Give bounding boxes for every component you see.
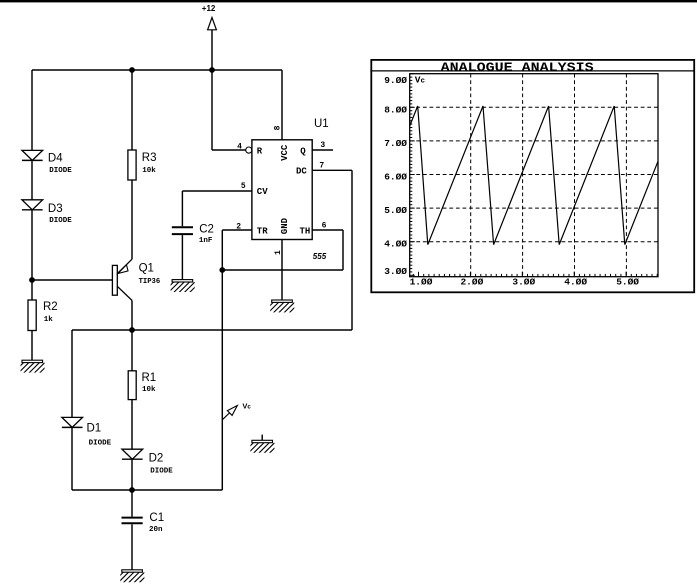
diode D2 [122, 449, 143, 459]
wire bottom rail y490 [72, 489, 222, 491]
wire base Q1 [32, 279, 112, 281]
waveform sawtooth trace Vc [410, 106, 658, 245]
svg-text:C1: C1 [149, 512, 164, 524]
wire pin Q stub [312, 149, 333, 151]
op-amp U1 555 body [252, 140, 312, 240]
svg-text:TIP36: TIP36 [139, 278, 161, 286]
svg-text:DC: DC [296, 167, 307, 177]
svg-text:2: 2 [236, 222, 241, 231]
svg-text:3.ØØ: 3.ØØ [384, 266, 407, 277]
resistor R1 [128, 371, 136, 400]
wire DC leg down [351, 170, 353, 330]
ground under R2 [13, 360, 50, 373]
svg-text:Q1: Q1 [139, 263, 154, 275]
pin 4 bubble on R [246, 147, 252, 153]
svg-text:R1: R1 [142, 372, 157, 384]
diode D3 [22, 200, 43, 210]
svg-text:20n: 20n [149, 526, 163, 534]
capacitor C2 [172, 227, 193, 234]
wire C2 bottom [181, 235, 183, 280]
node junction C1 [129, 487, 135, 493]
svg-text:DIODE: DIODE [49, 217, 72, 225]
wire R2 to ground [31, 331, 33, 361]
svg-text:7.ØØ: 7.ØØ [384, 138, 407, 149]
node base junction [29, 277, 35, 283]
wire C2 top [181, 191, 183, 226]
wire to R1 [131, 330, 133, 371]
resistor R2 [28, 300, 36, 331]
svg-text:5: 5 [241, 182, 246, 191]
svg-text:6: 6 [322, 221, 327, 230]
wire D4-D3 [31, 160, 33, 199]
svg-text:10k: 10k [142, 386, 156, 394]
svg-text:VCC: VCC [280, 144, 290, 161]
svg-text:+12: +12 [202, 4, 216, 13]
ground under C2 [163, 280, 200, 293]
svg-text:D4: D4 [48, 152, 63, 164]
grid vertical dashed lines [471, 74, 627, 277]
svg-text:4.ØØ: 4.ØØ [564, 276, 587, 287]
grid horizontal dashed lines [410, 107, 658, 241]
svg-text:4: 4 [237, 142, 242, 151]
svg-text:DIODE: DIODE [150, 467, 173, 475]
y axis ticks [410, 74, 415, 276]
transistor Q1 TIP36 [112, 259, 132, 300]
svg-text:1nF: 1nF [199, 237, 213, 245]
svg-text:10k: 10k [142, 167, 156, 175]
svg-text:TH: TH [300, 227, 311, 237]
svg-text:8: 8 [274, 125, 283, 130]
svg-text:5.ØØ: 5.ØØ [616, 276, 639, 287]
svg-text:1: 1 [274, 250, 283, 255]
x axis ticks [413, 272, 657, 277]
svg-text:R: R [257, 146, 263, 156]
wire pin TH [312, 229, 343, 231]
wire D3 to R2 [31, 210, 33, 300]
ground under 555 GND pin [263, 300, 300, 313]
svg-text:8.ØØ: 8.ØØ [384, 105, 407, 116]
wire D2 to bottom rail [131, 459, 133, 490]
wire to pin R [211, 70, 213, 150]
svg-text:1.ØØ: 1.ØØ [410, 276, 433, 287]
svg-text:3.ØØ: 3.ØØ [512, 276, 535, 287]
wire VCC drop [281, 70, 283, 140]
node junction collector/R1 [129, 327, 135, 333]
svg-text:D1: D1 [87, 423, 102, 435]
node junction top rail / +12 [209, 67, 215, 73]
probe Vc [222, 406, 237, 420]
svg-text:3: 3 [320, 141, 325, 150]
diode D1 [62, 417, 83, 427]
svg-text:DIODE: DIODE [89, 440, 112, 448]
wire pin CV [182, 190, 252, 192]
wire TH leg down [342, 230, 344, 270]
svg-text:555: 555 [313, 252, 327, 261]
svg-text:1k: 1k [44, 316, 54, 324]
wire to C1 [131, 490, 133, 517]
wire C1 to ground [131, 524, 133, 570]
wire +12 stem [211, 30, 213, 70]
node junction top rail / R3 [129, 67, 135, 73]
wire pin DC [312, 169, 352, 171]
svg-text:6.ØØ: 6.ØØ [384, 171, 407, 182]
svg-text:D2: D2 [149, 453, 164, 465]
svg-text:D3: D3 [48, 203, 63, 215]
svg-text:9.ØØ: 9.ØØ [384, 75, 407, 86]
floating ground symbol [261, 435, 263, 441]
svg-text:7: 7 [319, 161, 324, 170]
svg-text:Q: Q [300, 146, 306, 156]
power terminal +12 [208, 18, 217, 30]
svg-text:5.ØØ: 5.ØØ [384, 205, 407, 216]
svg-text:TR: TR [257, 227, 268, 237]
x axis labels [410, 276, 640, 287]
svg-text:4.ØØ: 4.ØØ [384, 239, 407, 250]
svg-text:R3: R3 [142, 152, 157, 164]
ground under C1 [113, 570, 150, 583]
wire to D1 [71, 330, 73, 417]
wire pin TR [222, 229, 252, 231]
wire pin GND down [281, 240, 283, 301]
svg-text:C2: C2 [199, 223, 214, 235]
top border bar [0, 0, 697, 2]
capacitor C1 [122, 518, 143, 524]
wire D1 to bottom rail [71, 427, 73, 490]
svg-text:ANALOGUE ANALYSIS: ANALOGUE ANALYSIS [441, 60, 594, 75]
svg-text:U1: U1 [314, 118, 329, 130]
wire R3 top [131, 70, 133, 150]
diode D4 [22, 150, 43, 160]
svg-text:DIODE: DIODE [49, 167, 72, 175]
y axis labels [384, 75, 407, 277]
svg-text:CV: CV [257, 187, 268, 197]
svg-text:GND: GND [280, 217, 290, 234]
wire TH to TR junction [222, 269, 343, 271]
node junction TR/TH [219, 267, 225, 273]
wire left rail upper [31, 70, 33, 150]
analysis window frame [371, 60, 694, 292]
analysis title separator [370, 70, 694, 72]
wire Q1 collector down [131, 300, 133, 330]
wire R1 to D2 [131, 400, 133, 450]
wire pin R horizontal [212, 149, 246, 151]
resistor R3 [128, 150, 136, 180]
wire node rail y330 [72, 329, 352, 331]
svg-text:R2: R2 [43, 301, 58, 313]
wire TR leg down [221, 230, 223, 490]
wire top rail [32, 69, 282, 71]
wire R3 to Q1 emitter [131, 180, 133, 259]
svg-text:2.ØØ: 2.ØØ [460, 276, 483, 287]
plot inner frame [410, 74, 658, 277]
